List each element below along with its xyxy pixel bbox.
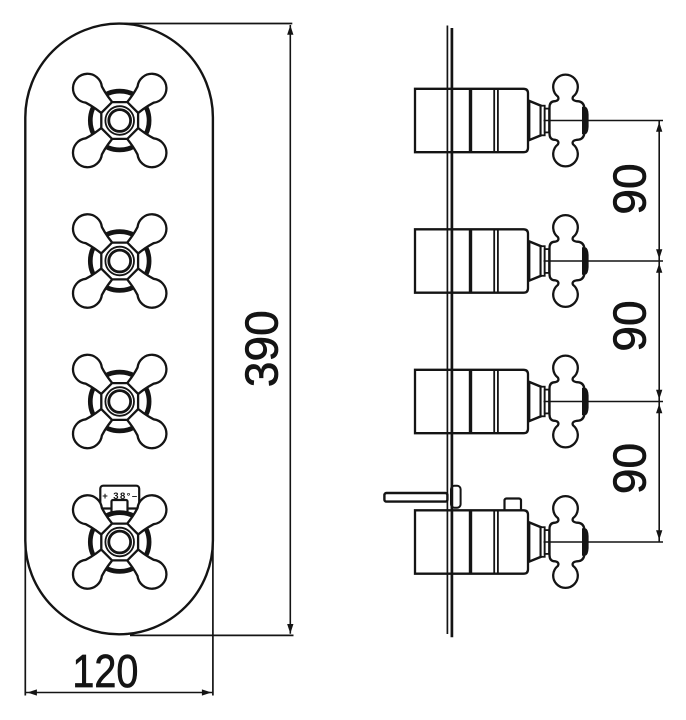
dim 90 line right <box>658 121 660 543</box>
dim 90 arrows at handle3 <box>656 390 662 400</box>
svg-text:90: 90 <box>604 300 656 351</box>
diverter stop box on cartridge 4 <box>505 499 522 512</box>
dim 90 arrows at handle2 <box>656 249 662 259</box>
dim 390 arrow up <box>287 25 293 35</box>
svg-text:390: 390 <box>235 310 287 387</box>
dim 390 arrow down <box>287 624 293 634</box>
cartridge 4 side <box>415 496 663 588</box>
thermostat label plate <box>100 486 139 509</box>
front plate <box>25 24 213 635</box>
cartridge 1 side <box>415 75 663 167</box>
dim 90 text 1 <box>604 163 656 214</box>
dim 90 text 3 <box>604 443 656 494</box>
dim 90 text 2 <box>604 300 656 351</box>
cartridge 2 side <box>415 215 663 307</box>
wall plate edge-on line A <box>446 26 448 635</box>
cartridge 3 side <box>415 356 663 448</box>
dim 120 left extension line <box>24 540 26 696</box>
dim 390 top extension line <box>117 23 292 25</box>
handle H2 front <box>67 208 172 313</box>
dim 120 line <box>26 692 214 694</box>
handle H1 front <box>67 68 172 173</box>
dim 120 arrow right <box>202 689 212 695</box>
thermostat set button tab <box>112 500 128 513</box>
svg-text:120: 120 <box>72 645 138 697</box>
lever boss on plate <box>451 486 461 508</box>
thermostat label text "+ 38° -" <box>102 491 137 502</box>
dim 90 arrow at handle1 <box>656 122 662 132</box>
handle H3 front <box>67 349 172 454</box>
svg-text:90: 90 <box>604 163 656 214</box>
dim 390 bottom extension line <box>130 634 294 636</box>
lever handle on cartridge 4 <box>384 493 447 502</box>
handle H4 front (thermostat) <box>67 489 172 594</box>
dim 120 text <box>72 645 138 697</box>
dim 390 line <box>289 25 291 634</box>
dim 390 text <box>235 310 287 387</box>
svg-text:90: 90 <box>604 443 656 494</box>
dim 90 arrow at handle4 <box>656 530 662 540</box>
dim 120 arrow left <box>27 689 37 695</box>
dim 120 right extension line <box>212 540 214 696</box>
wall plate edge-on line B <box>451 28 454 637</box>
